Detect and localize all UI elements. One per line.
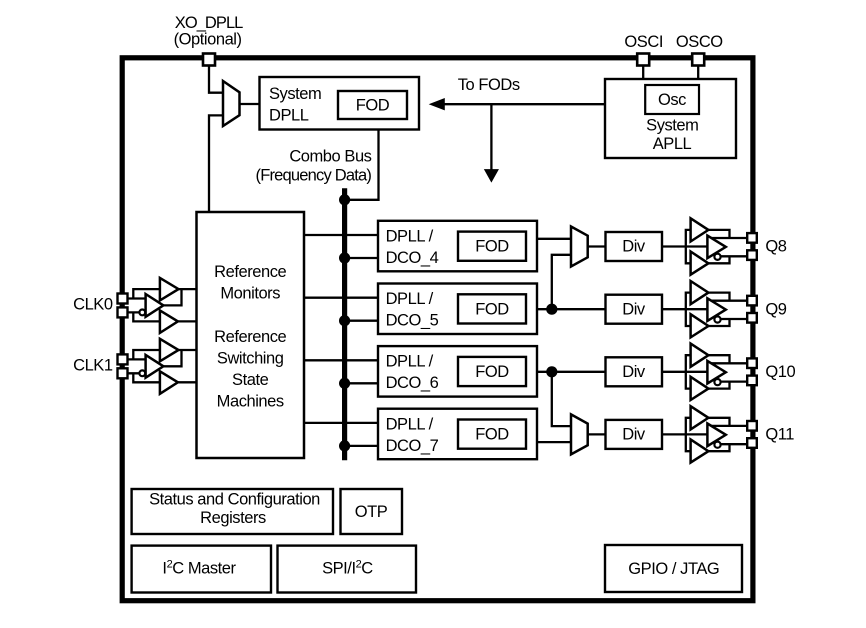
buffer Q11 differential driver <box>707 424 725 447</box>
junction DCO_5 branch <box>546 304 557 315</box>
wire Div to Q8 output buffers <box>662 245 707 247</box>
svg-text:FOD: FOD <box>356 97 390 115</box>
block Osc <box>645 85 699 114</box>
buffer Q11 bottom <box>691 439 709 462</box>
wire reference monitors to DPLL/DCO_4 <box>304 234 378 236</box>
svg-text:DPLL /: DPLL / <box>386 415 434 433</box>
svg-text:OSCI: OSCI <box>624 33 663 51</box>
junction combo bus / system FOD <box>339 194 350 205</box>
buffer CLK1 bottom <box>160 371 178 394</box>
buffer Q10 bottom <box>691 377 709 400</box>
wire CLK0- to input buffers <box>128 312 160 321</box>
svg-text:Q11: Q11 <box>765 426 794 444</box>
wire DCO_7 to output mux U3 <box>537 441 571 443</box>
svg-text:DPLL /: DPLL / <box>386 227 434 245</box>
wire OSCI pin into System APLL <box>642 66 644 80</box>
block DPLL / DCO_4 <box>378 221 537 271</box>
svg-text:DPLL: DPLL <box>269 106 309 124</box>
wire Q9+ to pin <box>711 300 748 302</box>
buffer Q9 differential driver <box>707 298 725 321</box>
wire CLK1 buffer to reference monitors (lower) <box>178 381 197 383</box>
wire Q8 buffer fanout <box>686 230 691 263</box>
block FOD (DCO_7) <box>458 420 526 449</box>
wire mux U2 to Div Q8 <box>588 245 606 247</box>
buffer Q11 top <box>691 406 709 429</box>
svg-text:Q10: Q10 <box>765 363 795 381</box>
svg-text:(Optional): (Optional) <box>174 31 242 49</box>
buffer Q10 top <box>691 344 709 367</box>
wire reference monitors to DPLL/DCO_5 <box>304 297 378 299</box>
wire CLK0 buffers to reference monitors (upper) <box>163 289 196 305</box>
inversion bubble Q11- <box>714 442 720 448</box>
junction combo bus row 4 <box>339 252 350 263</box>
block FOD (System DPLL) <box>338 91 407 119</box>
buffer Q9 bottom <box>691 314 709 337</box>
wire Div to Q9 output buffers <box>662 308 707 310</box>
svg-text:Q9: Q9 <box>765 300 786 318</box>
buffer CLK0 differential <box>146 294 164 317</box>
wire DCO_5 to Div Q9 <box>537 308 606 310</box>
svg-text:Reference: Reference <box>214 263 286 281</box>
block System APLL <box>605 79 736 158</box>
mux U3 (Q11 source select) <box>571 414 588 454</box>
label Combo Bus (Frequency Data) <box>256 147 372 184</box>
svg-text:XO_DPLL: XO_DPLL <box>175 14 243 32</box>
wire Q11 buffer fanout <box>686 418 691 451</box>
block Div (Q8) <box>606 232 663 261</box>
pin CLK0+ <box>118 294 128 304</box>
svg-text:DCO_6: DCO_6 <box>386 374 439 392</box>
block OTP <box>341 489 403 534</box>
pin Q8- <box>747 250 757 260</box>
block Div (Q10) <box>606 357 663 386</box>
wire XO_DPLL pin to input mux <box>209 66 222 93</box>
wire CLK1 buffers to reference monitors (upper) <box>163 350 196 366</box>
wire CLK0+ to input buffers <box>128 289 160 298</box>
mux U2 (Q8 source select) <box>571 227 588 267</box>
inversion bubble Q9- <box>714 316 720 322</box>
wire combo bus to DPLL/DCO_5 <box>345 320 378 322</box>
wire DCO_4 to output mux U2 <box>537 238 571 240</box>
pin CLK1+ <box>118 354 128 364</box>
wire OSCO pin to Osc <box>697 66 699 86</box>
wire Q10- to pin <box>720 380 747 382</box>
wire reference monitors to input mux <box>209 115 222 212</box>
wire Q9 top buffer output <box>708 293 729 301</box>
combo bus (thick vertical) <box>342 188 347 460</box>
svg-text:Monitors: Monitors <box>220 285 280 303</box>
block DPLL / DCO_7 <box>378 409 537 460</box>
wire Q10 top buffer output <box>708 355 729 363</box>
inversion bubble Q10- <box>714 379 720 385</box>
buffer CLK0 bottom <box>160 310 178 333</box>
block System DPLL <box>260 77 420 130</box>
buffer CLK0 top <box>160 278 179 301</box>
wire mux U1 output to System DPLL <box>240 103 260 105</box>
svg-text:Switching: Switching <box>217 349 284 367</box>
block DPLL / DCO_5 <box>378 284 537 335</box>
pin CLK0- <box>118 307 128 317</box>
buffer Q9 top <box>691 281 709 304</box>
junction DCO_6 branch <box>546 366 557 377</box>
wire CLK1- to input buffers <box>128 373 160 382</box>
svg-text:CLK0: CLK0 <box>73 296 113 314</box>
wire To FODs from System APLL (arrow left) <box>430 99 605 110</box>
block Reference Monitors / Reference Switching State Machines <box>197 212 305 458</box>
block FOD (DCO_4) <box>458 232 526 261</box>
buffer Q8 top <box>691 218 709 241</box>
svg-text:DPLL /: DPLL / <box>386 353 434 371</box>
svg-text:Div: Div <box>622 300 646 318</box>
buffer CLK1 top <box>160 339 179 362</box>
pin Q8+ <box>747 233 757 243</box>
block Status and Configuration Registers <box>132 489 333 534</box>
outer chip boundary <box>122 58 753 601</box>
wire Q10+ to pin <box>711 362 748 364</box>
pin OSCO <box>692 54 704 66</box>
wire mux U3 to Div Q11 <box>588 433 606 435</box>
block Div (Q9) <box>606 295 663 324</box>
svg-text:Combo Bus: Combo Bus <box>289 147 371 165</box>
svg-text:SPI/I2C: SPI/I2C <box>322 559 373 578</box>
block FOD (DCO_5) <box>458 294 526 323</box>
wire Q9 bottom buffer output <box>708 319 729 326</box>
svg-text:Div: Div <box>622 363 646 381</box>
wire To FODs branch down (arrow) <box>485 104 498 181</box>
label XO_DPLL (Optional) <box>174 14 244 49</box>
block FOD (DCO_6) <box>458 357 526 386</box>
svg-text:OTP: OTP <box>355 503 388 521</box>
svg-text:I2C Master: I2C Master <box>162 559 236 578</box>
wire Q8- to pin <box>720 255 747 257</box>
svg-text:DCO_5: DCO_5 <box>386 312 439 330</box>
wire Q8 top buffer output <box>708 230 729 238</box>
svg-text:Osc: Osc <box>658 91 686 109</box>
svg-text:System: System <box>646 116 698 134</box>
wire Q9- to pin <box>720 318 747 320</box>
wire reference monitors to DPLL/DCO_7 <box>304 422 378 424</box>
wire Q11+ to pin <box>711 425 748 427</box>
svg-text:Machines: Machines <box>217 392 284 410</box>
buffer Q10 differential driver <box>707 361 725 384</box>
pin OSCI <box>637 54 649 66</box>
block I2C Master <box>132 546 271 593</box>
block GPIO / JTAG <box>605 545 742 592</box>
svg-text:FOD: FOD <box>475 426 509 444</box>
block DPLL / DCO_6 <box>378 346 537 397</box>
wire Q11 bottom buffer output <box>708 444 729 451</box>
svg-text:DCO_7: DCO_7 <box>386 437 439 455</box>
pin Q9- <box>747 313 757 323</box>
wire Q8+ to pin <box>711 237 748 239</box>
pin Q10- <box>747 376 757 386</box>
svg-text:Div: Div <box>622 238 646 256</box>
junction combo bus row 5 <box>339 315 350 326</box>
wire Q8 bottom buffer output <box>708 256 729 263</box>
wire Q11 top buffer output <box>708 418 729 426</box>
svg-text:State: State <box>232 371 269 389</box>
svg-text:Q8: Q8 <box>765 238 786 256</box>
junction combo bus row 6 <box>339 378 350 389</box>
svg-text:GPIO / JTAG: GPIO / JTAG <box>628 560 719 578</box>
svg-text:To FODs: To FODs <box>458 76 520 94</box>
wire Q10 bottom buffer output <box>708 382 729 389</box>
buffer Q8 bottom <box>691 252 709 275</box>
pin CLK1- <box>118 368 128 378</box>
wire combo bus to DPLL/DCO_4 <box>345 257 378 259</box>
svg-text:FOD: FOD <box>475 363 509 381</box>
mux U1 (XO/reference select) <box>223 81 240 126</box>
svg-text:FOD: FOD <box>475 238 509 256</box>
block SPI/I2C <box>278 546 417 593</box>
svg-text:Registers: Registers <box>200 509 266 527</box>
svg-text:Status and Configuration: Status and Configuration <box>149 490 320 508</box>
inversion bubble Q8- <box>714 254 720 260</box>
wire Div to Q10 output buffers <box>662 371 707 373</box>
inversion bubble CLK0- <box>139 310 145 316</box>
pin Q11- <box>747 438 757 448</box>
svg-text:Div: Div <box>622 426 646 444</box>
svg-text:CLK1: CLK1 <box>73 357 113 375</box>
svg-text:(Frequency Data): (Frequency Data) <box>256 167 372 185</box>
svg-text:FOD: FOD <box>475 300 509 318</box>
buffer CLK1 differential <box>146 355 164 378</box>
wire CLK1+ to input buffers <box>128 350 160 359</box>
wire DCO_6 to Div Q10 <box>537 371 606 373</box>
wire reference monitors to DPLL/DCO_6 <box>304 359 378 361</box>
wire DCO_6 branch to output mux U3 <box>552 372 571 426</box>
block Div (Q11) <box>606 420 663 449</box>
wire combo bus to DPLL/DCO_7 <box>345 445 378 447</box>
pin Q10+ <box>747 358 757 368</box>
wire CLK0 buffer to reference monitors (lower) <box>178 320 197 322</box>
svg-text:OSCO: OSCO <box>676 33 723 51</box>
pin Q9+ <box>747 296 757 306</box>
wire Q9 buffer fanout <box>686 293 691 326</box>
wire Q11- to pin <box>720 443 747 445</box>
wire DCO_5 branch to output mux U2 <box>552 255 571 309</box>
svg-text:Reference: Reference <box>214 328 286 346</box>
svg-text:APLL: APLL <box>653 135 692 153</box>
inversion bubble CLK1- <box>139 370 145 376</box>
wire Div to Q11 output buffers <box>662 433 707 435</box>
wire System DPLL FOD output down to combo bus <box>345 130 379 200</box>
svg-text:DCO_4: DCO_4 <box>386 249 439 267</box>
wire Q10 buffer fanout <box>686 355 691 388</box>
junction combo bus row 7 <box>339 440 350 451</box>
svg-text:System: System <box>269 85 321 103</box>
svg-text:DPLL /: DPLL / <box>386 290 434 308</box>
pin Q11+ <box>747 421 757 431</box>
pin XO_DPLL <box>203 54 215 66</box>
wire combo bus to DPLL/DCO_6 <box>345 382 378 384</box>
buffer Q8 differential driver <box>707 236 725 259</box>
